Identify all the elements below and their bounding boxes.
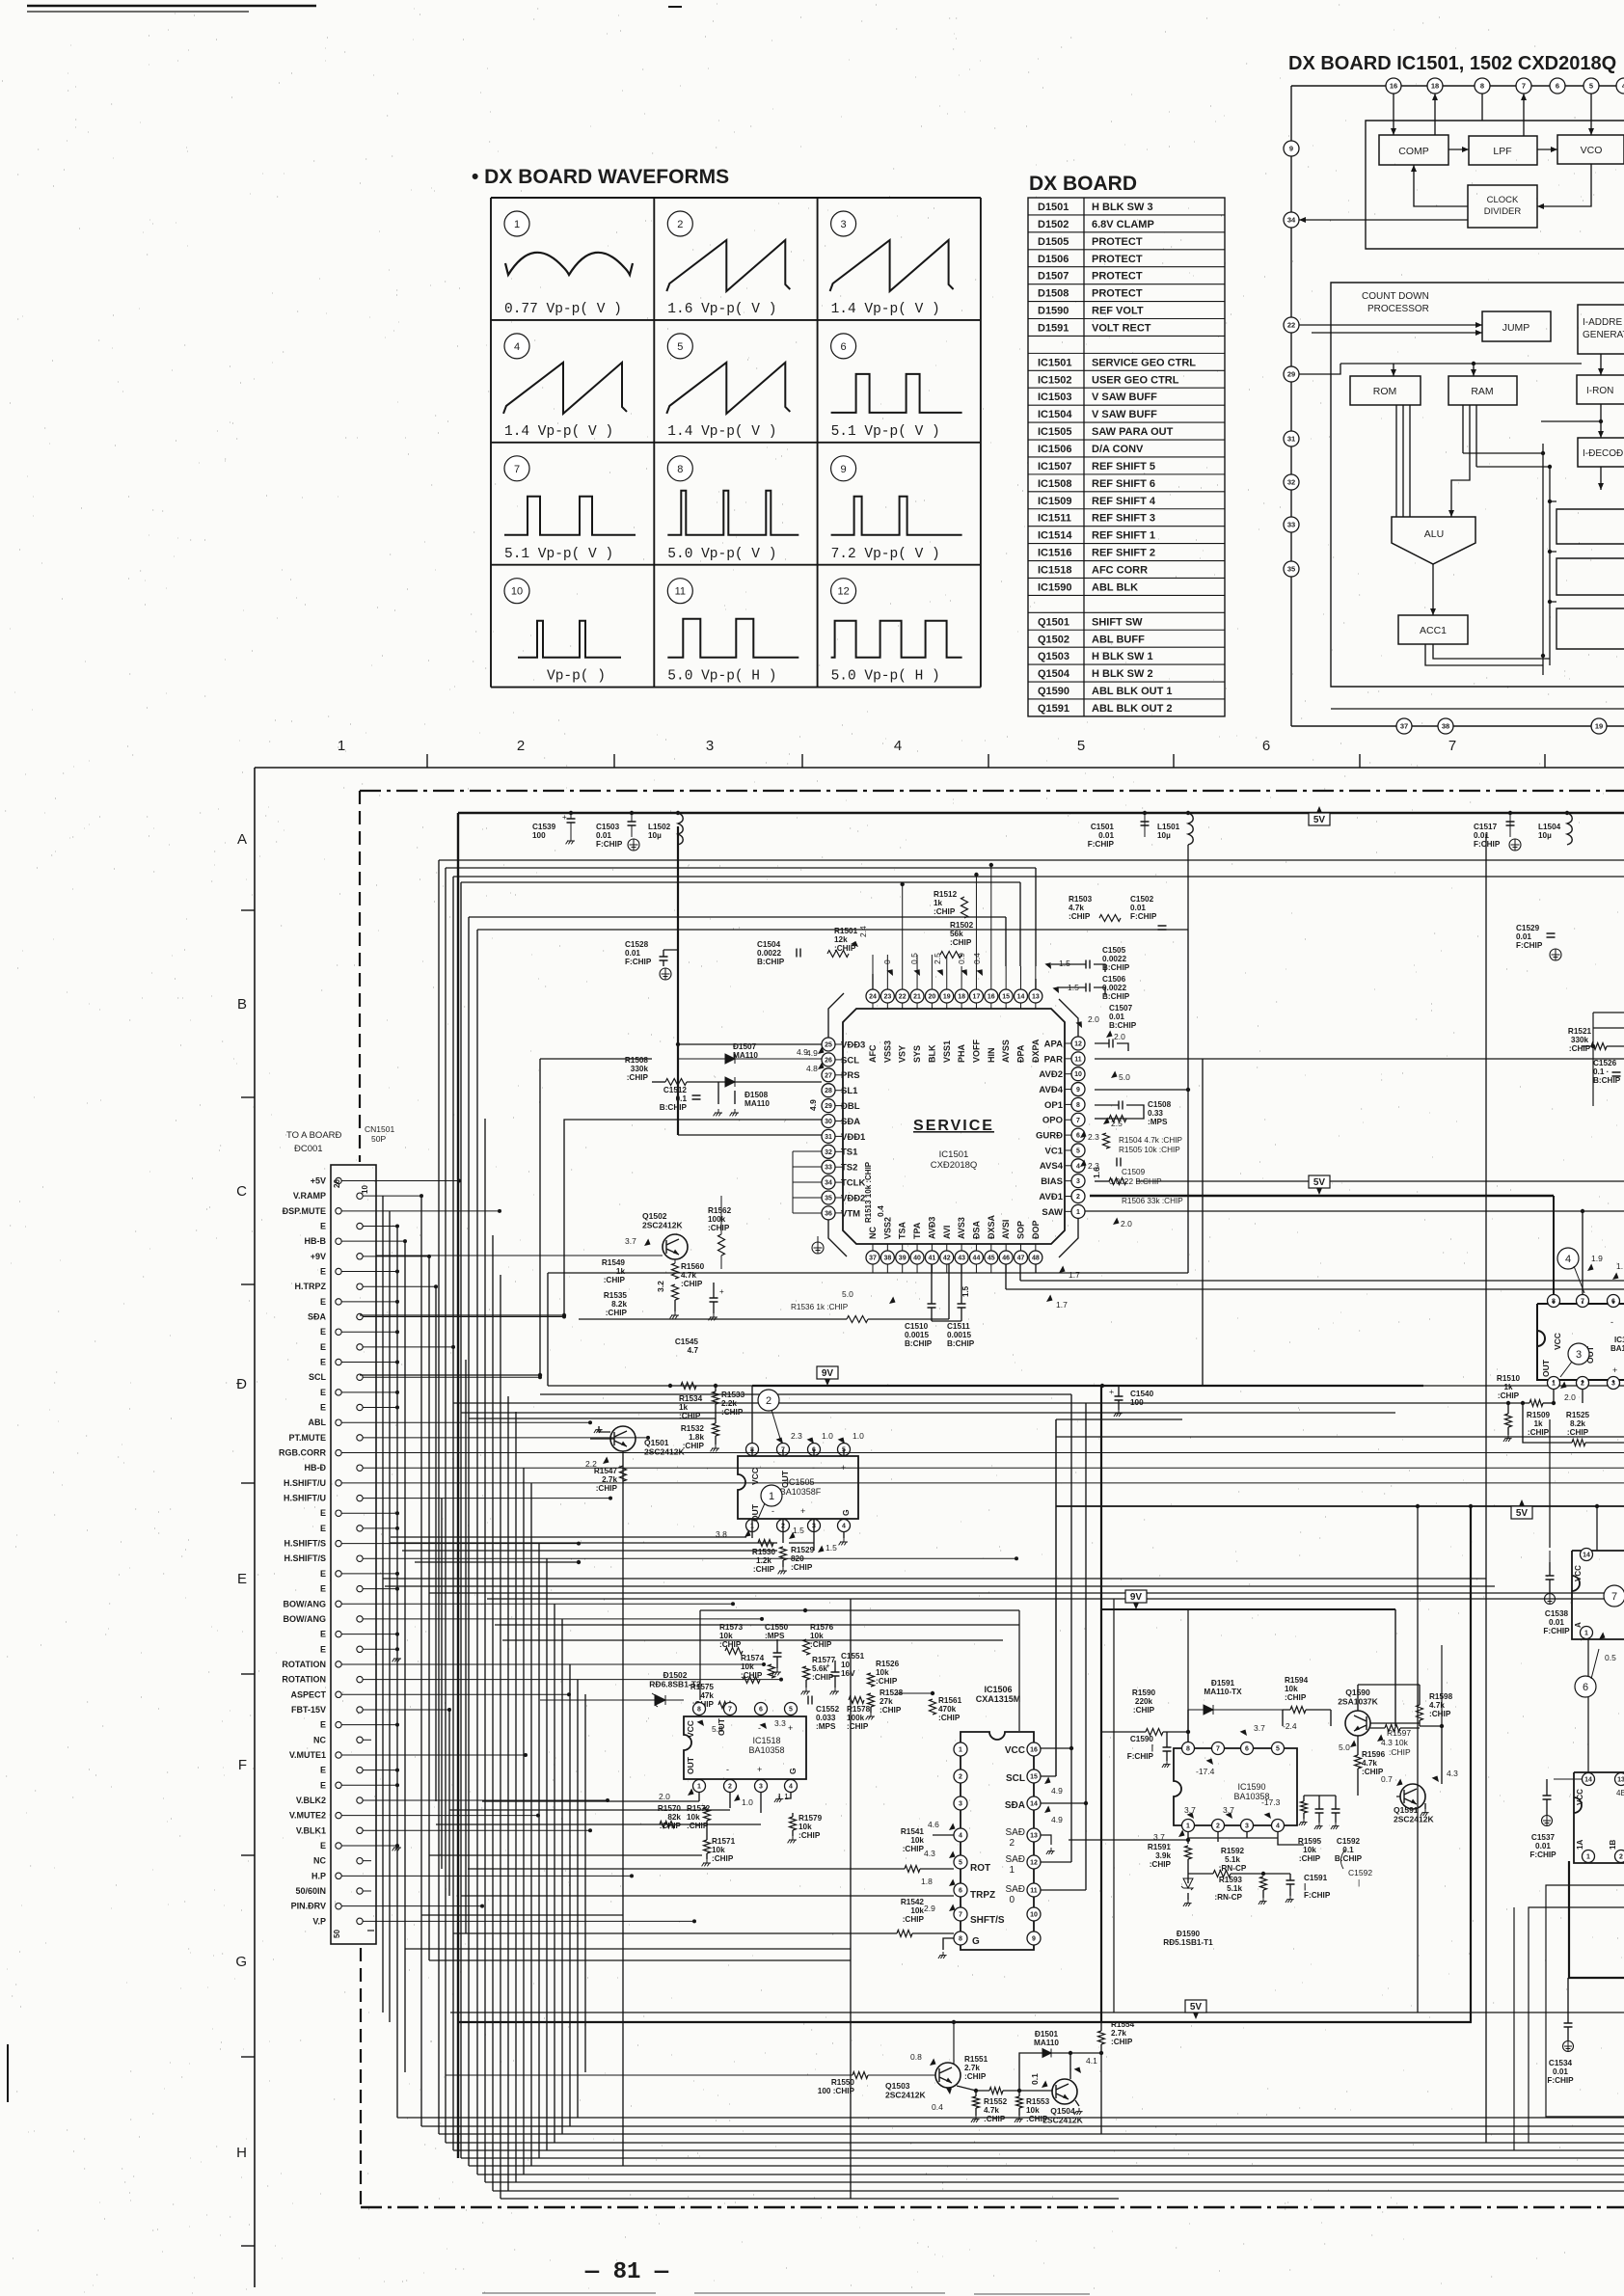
svg-text:10: 10 bbox=[1074, 1071, 1082, 1078]
svg-text:Q1503: Q1503 bbox=[1038, 651, 1069, 662]
connector body bbox=[331, 1165, 376, 1944]
svg-text:12: 12 bbox=[837, 586, 849, 598]
svg-text:ACC1: ACC1 bbox=[1420, 625, 1447, 636]
svg-text:R1504 4.7k :CHIP: R1504 4.7k :CHIP bbox=[1119, 1136, 1183, 1145]
svg-text::CHIP: :CHIP bbox=[1389, 1747, 1411, 1757]
svg-text:8: 8 bbox=[697, 1707, 701, 1714]
svg-text:6: 6 bbox=[959, 1888, 962, 1895]
svg-text:8: 8 bbox=[1480, 82, 1484, 91]
wire left vertical bundle bbox=[438, 860, 440, 2134]
svg-text:ABL BLK OUT 2: ABL BLK OUT 2 bbox=[1092, 703, 1173, 715]
svg-text:0: 0 bbox=[1009, 1895, 1015, 1905]
svg-text:4.8: 4.8 bbox=[806, 1064, 818, 1073]
svg-text:36: 36 bbox=[825, 1210, 832, 1217]
svg-text:Ð1508MA110: Ð1508MA110 bbox=[744, 1091, 770, 1108]
svg-text:3.7: 3.7 bbox=[1254, 1723, 1265, 1733]
block ALU bbox=[1392, 517, 1475, 564]
svg-text:3.2: 3.2 bbox=[656, 1281, 665, 1292]
supply 5V box A bbox=[1309, 806, 1330, 825]
svg-text:0.1: 0.1 bbox=[1030, 2073, 1040, 2085]
svg-text:1.5: 1.5 bbox=[793, 1526, 804, 1535]
svg-text:14: 14 bbox=[1584, 1777, 1592, 1784]
svg-text:3.3: 3.3 bbox=[774, 1718, 786, 1728]
svg-text:1B: 1B bbox=[1609, 1840, 1617, 1850]
svg-text:3: 3 bbox=[959, 1801, 962, 1808]
waveform 7 bbox=[504, 456, 529, 481]
svg-text:GURÐ: GURÐ bbox=[1036, 1131, 1063, 1142]
svg-text:E: E bbox=[320, 1569, 326, 1579]
svg-text:REF SHIFT 2: REF SHIFT 2 bbox=[1092, 548, 1155, 559]
wire SDA run bbox=[360, 1120, 822, 1315]
IC1501 bottom pins 37-48 bbox=[872, 1244, 874, 1251]
svg-text:4: 4 bbox=[514, 341, 520, 353]
svg-text:IC1506: IC1506 bbox=[1038, 444, 1071, 455]
svg-text:2: 2 bbox=[1619, 1854, 1623, 1861]
IC1501 left pins 25-36 bbox=[835, 1043, 843, 1045]
svg-text:1: 1 bbox=[1009, 1865, 1015, 1876]
svg-text:13: 13 bbox=[1030, 1833, 1038, 1840]
svg-text:13: 13 bbox=[1617, 1777, 1624, 1784]
svg-text:0.8: 0.8 bbox=[910, 2052, 922, 2062]
svg-text:7: 7 bbox=[1448, 738, 1456, 754]
svg-text:1.8: 1.8 bbox=[921, 1877, 933, 1886]
svg-text:7: 7 bbox=[1522, 82, 1526, 91]
svg-text:29: 29 bbox=[1287, 370, 1295, 379]
svg-text:41: 41 bbox=[929, 1256, 936, 1262]
svg-text:9V: 9V bbox=[1130, 1592, 1143, 1603]
svg-text:PRS: PRS bbox=[841, 1070, 860, 1081]
svg-text:5: 5 bbox=[1076, 1148, 1080, 1154]
svg-text:1.4 Vp-p( V ): 1.4 Vp-p( V ) bbox=[504, 424, 613, 440]
transistor Q1590 bbox=[1345, 1711, 1370, 1736]
svg-text:VTM: VTM bbox=[841, 1208, 860, 1219]
svg-text:9: 9 bbox=[1289, 145, 1293, 153]
svg-text:IC1505: IC1505 bbox=[786, 1477, 814, 1487]
svg-text:5: 5 bbox=[789, 1707, 793, 1714]
connector grounds bbox=[392, 1655, 401, 1661]
svg-text:LPF: LPF bbox=[1493, 146, 1511, 157]
svg-text:DX BOARD: DX BOARD bbox=[1029, 173, 1137, 195]
svg-text:25: 25 bbox=[825, 1042, 832, 1049]
svg-text:E: E bbox=[320, 1584, 326, 1594]
wire rows under IC1505 bbox=[383, 1578, 1486, 1580]
svg-text:V SAW BUFF: V SAW BUFF bbox=[1092, 392, 1157, 403]
transistor Q1502 bbox=[663, 1234, 688, 1259]
svg-text:2: 2 bbox=[1216, 1823, 1220, 1830]
svg-text:I-ÐECOÐ: I-ÐECOÐ bbox=[1583, 448, 1623, 459]
supply 5V box right bbox=[1511, 1499, 1532, 1519]
svg-text:35: 35 bbox=[825, 1196, 832, 1202]
svg-text:IC1590: IC1590 bbox=[1038, 581, 1071, 593]
svg-text:TRPZ: TRPZ bbox=[970, 1890, 995, 1901]
wire right side box group bbox=[1470, 1506, 1472, 2022]
svg-text:2: 2 bbox=[766, 1395, 771, 1407]
svg-text:31: 31 bbox=[1287, 435, 1295, 444]
svg-text:10: 10 bbox=[361, 1185, 369, 1194]
svg-text:VCC: VCC bbox=[1576, 1789, 1584, 1805]
svg-text:15: 15 bbox=[1002, 994, 1010, 1001]
svg-text:VC1: VC1 bbox=[1045, 1146, 1064, 1156]
svg-text:V.BLK1: V.BLK1 bbox=[296, 1825, 326, 1835]
svg-text:0.9: 0.9 bbox=[957, 953, 966, 964]
svg-text:4.9: 4.9 bbox=[1051, 1815, 1063, 1824]
svg-text:2: 2 bbox=[517, 738, 525, 754]
svg-text:4.3: 4.3 bbox=[924, 1849, 935, 1858]
svg-text:+9V: +9V bbox=[311, 1252, 326, 1261]
svg-text:11: 11 bbox=[1030, 1888, 1038, 1895]
svg-text:1.0: 1.0 bbox=[742, 1797, 753, 1807]
svg-text:2.3: 2.3 bbox=[1088, 1132, 1099, 1142]
svg-text:TCLK: TCLK bbox=[841, 1178, 865, 1189]
svg-text:4.3 10k: 4.3 10k bbox=[1381, 1738, 1409, 1747]
svg-text:SÐA: SÐA bbox=[1005, 1800, 1025, 1811]
transistor Q1501 bbox=[610, 1426, 636, 1451]
wire IC1505 output runs bbox=[391, 1536, 746, 1538]
wire nested top bus group bbox=[439, 859, 1624, 861]
svg-text:PT.MUTE: PT.MUTE bbox=[288, 1433, 326, 1443]
svg-text:13: 13 bbox=[1032, 994, 1040, 1001]
wire 5V right bus bbox=[1056, 1505, 1624, 1507]
svg-text:D/A CONV: D/A CONV bbox=[1092, 444, 1144, 455]
svg-text:7.2 Vp-p( V ): 7.2 Vp-p( V ) bbox=[831, 547, 940, 562]
svg-text:7: 7 bbox=[728, 1707, 732, 1714]
svg-text:REF SHIFT 3: REF SHIFT 3 bbox=[1092, 513, 1155, 525]
svg-text:Ð: Ð bbox=[236, 1376, 247, 1392]
svg-text:10: 10 bbox=[511, 586, 523, 598]
svg-text:FBT-15V: FBT-15V bbox=[291, 1705, 326, 1715]
svg-text:ROM: ROM bbox=[1373, 386, 1397, 397]
svg-text:4: 4 bbox=[1276, 1823, 1280, 1830]
svg-text:IC1502: IC1502 bbox=[1038, 374, 1071, 386]
waveform ref 4 bbox=[1557, 1248, 1579, 1269]
waveform 12 bbox=[831, 579, 856, 604]
svg-text:AFC: AFC bbox=[868, 1044, 878, 1063]
svg-text:SAÐ: SAÐ bbox=[1005, 1884, 1025, 1895]
IC1501 right pins 12-1 bbox=[1065, 1042, 1071, 1044]
svg-text:1.5: 1.5 bbox=[961, 1285, 970, 1297]
COUNT DOWN PROCESSOR box bbox=[1331, 283, 1624, 687]
svg-text:D1590: D1590 bbox=[1038, 306, 1069, 317]
svg-text:E: E bbox=[320, 1267, 326, 1277]
svg-text:VCC: VCC bbox=[1005, 1745, 1025, 1756]
svg-text:27: 27 bbox=[825, 1072, 832, 1079]
block LPF bbox=[1469, 136, 1537, 165]
svg-text:6.8V CLAMP: 6.8V CLAMP bbox=[1092, 219, 1154, 230]
waveform 9 bbox=[831, 456, 856, 481]
wire bottom bus group bbox=[450, 2012, 1624, 2013]
waveform ref 7 bbox=[1604, 1585, 1624, 1607]
svg-text:OP1: OP1 bbox=[1044, 1100, 1064, 1111]
svg-text:USER GEO CTRL: USER GEO CTRL bbox=[1092, 374, 1179, 386]
svg-text:-17.4: -17.4 bbox=[1196, 1767, 1215, 1776]
waveform ref 2 bbox=[758, 1390, 779, 1411]
waveform 3 bbox=[831, 211, 856, 236]
svg-text:G: G bbox=[972, 1936, 980, 1947]
svg-text:D1501: D1501 bbox=[1038, 202, 1069, 213]
svg-text:PROTECT: PROTECT bbox=[1092, 288, 1143, 300]
svg-text:OPO: OPO bbox=[1042, 1116, 1063, 1126]
wire long verticals center bbox=[622, 1451, 624, 2166]
svg-text:E: E bbox=[320, 1841, 326, 1850]
svg-text:39: 39 bbox=[899, 1256, 907, 1262]
svg-text:BIAS: BIAS bbox=[1041, 1176, 1063, 1187]
svg-text:3: 3 bbox=[1076, 1178, 1080, 1185]
svg-text:I-RON: I-RON bbox=[1586, 386, 1613, 396]
svg-text:TS1: TS1 bbox=[841, 1148, 858, 1158]
svg-text:H.SHIFT/U: H.SHIFT/U bbox=[284, 1494, 326, 1503]
svg-text:SHFT/S: SHFT/S bbox=[970, 1915, 1005, 1926]
svg-text:RGB.CORR: RGB.CORR bbox=[279, 1448, 326, 1458]
svg-text:A: A bbox=[1574, 1622, 1583, 1628]
wire IC1518 section box bbox=[700, 1609, 1019, 1611]
svg-text:5: 5 bbox=[1276, 1746, 1280, 1753]
svg-text:11: 11 bbox=[675, 586, 686, 598]
svg-text:1.7: 1.7 bbox=[1069, 1270, 1080, 1280]
svg-text:ÐOP: ÐOP bbox=[1031, 1220, 1041, 1239]
svg-text:RAM: RAM bbox=[1471, 386, 1493, 397]
wire IC1501 top pin stubs bbox=[872, 955, 874, 989]
op-amp IC1505 BA10358F bbox=[738, 1456, 858, 1519]
transistor Q1503 bbox=[935, 2063, 961, 2088]
svg-text:PROTECT: PROTECT bbox=[1092, 254, 1143, 265]
svg-text:ROTATION: ROTATION bbox=[282, 1675, 326, 1685]
svg-text:ÐC001: ÐC001 bbox=[294, 1144, 323, 1154]
svg-text:V.MUTE1: V.MUTE1 bbox=[289, 1750, 326, 1760]
svg-text:34: 34 bbox=[825, 1180, 832, 1187]
supply 5V box bottom bbox=[1185, 2000, 1206, 2019]
svg-text:JUMP: JUMP bbox=[1502, 322, 1530, 334]
block CLOCK DIVIDER bbox=[1468, 185, 1537, 228]
svg-text:R1506 33k :CHIP: R1506 33k :CHIP bbox=[1122, 1197, 1183, 1205]
svg-text:|: | bbox=[1358, 1877, 1360, 1887]
svg-text:I-ADDRE: I-ADDRE bbox=[1583, 317, 1622, 328]
svg-text:50: 50 bbox=[333, 1930, 341, 1938]
svg-text:2.5: 2.5 bbox=[933, 953, 942, 964]
svg-text:IC1501: IC1501 bbox=[939, 1149, 969, 1160]
svg-text:G: G bbox=[235, 1954, 247, 1970]
svg-text:24: 24 bbox=[869, 994, 877, 1001]
partial IC top right: pins bbox=[1572, 1551, 1624, 1639]
svg-text:VSS1: VSS1 bbox=[942, 1040, 952, 1063]
svg-text:V.MUTE2: V.MUTE2 bbox=[289, 1811, 326, 1821]
svg-text:+: + bbox=[757, 1765, 762, 1774]
svg-text:VÐÐ1: VÐÐ1 bbox=[841, 1132, 866, 1143]
svg-text:AVSS: AVSS bbox=[1001, 1040, 1011, 1063]
svg-text:20: 20 bbox=[929, 994, 936, 1001]
svg-text:PROTECT: PROTECT bbox=[1092, 271, 1143, 283]
waveform 2 bbox=[667, 211, 692, 236]
svg-text:IC1509: IC1509 bbox=[1038, 496, 1071, 507]
op-chip IC1501 CXD2018Q body bbox=[843, 1009, 1065, 1244]
svg-text:6: 6 bbox=[1262, 738, 1270, 754]
wire Q1590 collector emitter bbox=[1358, 1685, 1442, 1796]
svg-text:C1592: C1592 bbox=[1348, 1868, 1372, 1877]
svg-text:IC1508: IC1508 bbox=[1038, 478, 1071, 490]
svg-text:SCL: SCL bbox=[1006, 1773, 1025, 1784]
svg-text:OUT: OUT bbox=[686, 1756, 695, 1774]
svg-text:TSA: TSA bbox=[898, 1221, 907, 1239]
block I-ROM bbox=[1577, 375, 1624, 404]
svg-text:VSY: VSY bbox=[898, 1045, 907, 1063]
svg-text:5V: 5V bbox=[1313, 1177, 1326, 1188]
svg-text:+: + bbox=[800, 1506, 805, 1516]
svg-text:1.4 Vp-p( V ): 1.4 Vp-p( V ) bbox=[667, 424, 776, 440]
svg-text:4.9: 4.9 bbox=[808, 1099, 818, 1111]
svg-text:G: G bbox=[841, 1509, 851, 1516]
svg-text:32: 32 bbox=[825, 1149, 832, 1156]
svg-text:SCL: SCL bbox=[309, 1372, 327, 1382]
svg-text:REF SHIFT 4: REF SHIFT 4 bbox=[1092, 496, 1156, 507]
svg-text:5: 5 bbox=[677, 341, 683, 353]
svg-text:12: 12 bbox=[1030, 1860, 1038, 1867]
svg-text:REF VOLT: REF VOLT bbox=[1092, 306, 1144, 317]
svg-text:COMP: COMP bbox=[1398, 146, 1429, 157]
IC1501 top pins 24-13 bbox=[872, 1003, 874, 1009]
bottom scan artifact bbox=[482, 2293, 1090, 2294]
wire pins 32-36 stubs bbox=[793, 1150, 822, 1152]
svg-text:AVSI: AVSI bbox=[1001, 1220, 1011, 1239]
svg-text:IC1505: IC1505 bbox=[1038, 426, 1071, 438]
svg-text:5.0: 5.0 bbox=[1119, 1072, 1130, 1082]
svg-text:5.1 Vp-p( V ): 5.1 Vp-p( V ) bbox=[831, 424, 940, 440]
svg-text:30: 30 bbox=[825, 1119, 832, 1125]
svg-text:8: 8 bbox=[677, 464, 683, 475]
svg-text:APA: APA bbox=[1044, 1039, 1063, 1049]
svg-text:8: 8 bbox=[1186, 1746, 1190, 1753]
svg-text:1.0: 1.0 bbox=[853, 1431, 864, 1441]
svg-text:23: 23 bbox=[883, 994, 891, 1001]
svg-text:43: 43 bbox=[958, 1256, 965, 1262]
wire +5V vertical thick bbox=[457, 813, 459, 2158]
svg-text:VÐÐ2: VÐÐ2 bbox=[841, 1193, 865, 1203]
wire IC1590 bottom bbox=[1069, 1832, 1304, 1845]
svg-text:AVÐ4: AVÐ4 bbox=[1039, 1085, 1063, 1095]
svg-text:18: 18 bbox=[1431, 82, 1439, 91]
svg-text:Q1591: Q1591 bbox=[1038, 703, 1069, 715]
wire IC1501 bottom pin stubs bbox=[872, 1264, 874, 1273]
svg-text:28: 28 bbox=[825, 1088, 832, 1094]
svg-text:6: 6 bbox=[1583, 1682, 1588, 1693]
block diagram bottom pin row bbox=[1291, 725, 1624, 727]
svg-text:PROCESSOR: PROCESSOR bbox=[1367, 304, 1429, 314]
svg-text:3.7: 3.7 bbox=[625, 1236, 636, 1246]
svg-text:H.TRPZ: H.TRPZ bbox=[295, 1282, 327, 1291]
svg-text:33: 33 bbox=[1287, 521, 1295, 529]
svg-text:1: 1 bbox=[1584, 1631, 1588, 1637]
svg-text:ABL BLK OUT 1: ABL BLK OUT 1 bbox=[1092, 686, 1173, 697]
svg-text:E: E bbox=[320, 1403, 326, 1413]
waveform 5 bbox=[667, 334, 692, 359]
svg-text:ÐPA: ÐPA bbox=[1016, 1044, 1026, 1063]
svg-text:E: E bbox=[320, 1644, 326, 1654]
svg-text:4: 4 bbox=[789, 1784, 793, 1791]
svg-text:1: 1 bbox=[769, 1491, 774, 1502]
svg-text:Q1502: Q1502 bbox=[1038, 634, 1069, 645]
svg-text:Q1504: Q1504 bbox=[1038, 668, 1070, 680]
svg-text:5.8: 5.8 bbox=[712, 1724, 723, 1734]
svg-text:E: E bbox=[320, 1358, 326, 1367]
svg-text:SAÐ: SAÐ bbox=[1005, 1854, 1025, 1865]
svg-text:H.P: H.P bbox=[311, 1871, 326, 1880]
PLL outer box bbox=[1366, 121, 1624, 249]
svg-text:GENERAT: GENERAT bbox=[1583, 330, 1624, 340]
svg-text:H BLK SW 3: H BLK SW 3 bbox=[1092, 202, 1153, 213]
svg-text:ÐXPA: ÐXPA bbox=[1031, 1039, 1041, 1063]
svg-text:A: A bbox=[237, 831, 247, 848]
svg-text:2: 2 bbox=[1009, 1838, 1015, 1849]
svg-text:COUNT DOWN: COUNT DOWN bbox=[1362, 291, 1429, 302]
svg-text:4.1: 4.1 bbox=[1086, 2056, 1097, 2066]
svg-text:D1502: D1502 bbox=[1038, 219, 1069, 230]
wire H.P run bbox=[429, 1959, 851, 1961]
svg-text:6: 6 bbox=[841, 341, 847, 353]
svg-text:ÐXSA: ÐXSA bbox=[987, 1214, 996, 1239]
wire mid horizontal bus group bbox=[548, 1385, 752, 1387]
svg-text:REF SHIFT 5: REF SHIFT 5 bbox=[1092, 461, 1155, 473]
svg-text:2.4: 2.4 bbox=[858, 926, 868, 937]
svg-text:5.0: 5.0 bbox=[1339, 1742, 1350, 1752]
svg-text:VCO: VCO bbox=[1581, 145, 1603, 156]
svg-text:PROTECT: PROTECT bbox=[1092, 236, 1143, 248]
svg-text:IC1518: IC1518 bbox=[752, 1736, 780, 1745]
svg-text:BOW/ANG: BOW/ANG bbox=[284, 1614, 327, 1624]
op-amp IC1518 BA10358 bbox=[684, 1716, 806, 1779]
svg-text:37: 37 bbox=[869, 1256, 877, 1262]
svg-text:3: 3 bbox=[1576, 1349, 1582, 1361]
svg-text:Ð1501MA110: Ð1501MA110 bbox=[1034, 2030, 1059, 2047]
block I-DECODER bbox=[1578, 438, 1624, 467]
block diagram pin row top bbox=[1291, 85, 1624, 87]
svg-text:HIN: HIN bbox=[987, 1048, 996, 1064]
svg-text:V.RAMP: V.RAMP bbox=[293, 1191, 326, 1201]
svg-text:7: 7 bbox=[1076, 1118, 1080, 1124]
svg-text:37: 37 bbox=[1400, 722, 1408, 731]
svg-text:1.: 1. bbox=[1616, 1261, 1623, 1271]
svg-text:33: 33 bbox=[825, 1165, 832, 1172]
ruler left bbox=[254, 768, 256, 2287]
svg-text:19: 19 bbox=[1595, 722, 1603, 731]
svg-text:14: 14 bbox=[1017, 994, 1025, 1001]
waveform 10 bbox=[504, 579, 529, 604]
svg-text:V.BLK2: V.BLK2 bbox=[296, 1796, 326, 1805]
svg-text:IC1590: IC1590 bbox=[1237, 1782, 1265, 1792]
svg-text:35: 35 bbox=[1287, 565, 1295, 574]
svg-text:SCL: SCL bbox=[841, 1055, 859, 1066]
wire long right-going runs from IC1501 bbox=[1095, 1058, 1624, 1060]
wire IC1505 pins bbox=[752, 1449, 844, 1456]
block RAM bbox=[1448, 376, 1517, 405]
svg-text:ÐBL: ÐBL bbox=[841, 1101, 860, 1112]
svg-text:34: 34 bbox=[1287, 216, 1296, 225]
svg-text:7: 7 bbox=[959, 1912, 962, 1919]
svg-text:DX BOARD IC1501, 1502 CXD201: DX BOARD IC1501, 1502 CXD2018Q bbox=[1288, 53, 1616, 74]
svg-text:+: + bbox=[719, 1287, 724, 1296]
svg-text:G: G bbox=[788, 1768, 798, 1774]
svg-text:PHA: PHA bbox=[957, 1043, 966, 1063]
svg-text:8: 8 bbox=[959, 1936, 962, 1943]
svg-text:SERVICE: SERVICE bbox=[913, 1118, 994, 1134]
svg-text:4B: 4B bbox=[1616, 1789, 1624, 1797]
svg-text:ABL BLK: ABL BLK bbox=[1092, 581, 1138, 593]
svg-text:ALU: ALU bbox=[1424, 528, 1444, 540]
svg-text:SÐA: SÐA bbox=[308, 1312, 327, 1322]
svg-text:IC1514: IC1514 bbox=[1038, 530, 1072, 542]
svg-text:IC15: IC15 bbox=[1614, 1336, 1624, 1344]
svg-text:REF SHIFT 6: REF SHIFT 6 bbox=[1092, 478, 1155, 490]
svg-text:— 81 —: — 81 — bbox=[584, 2259, 669, 2285]
svg-text:4: 4 bbox=[842, 1524, 846, 1530]
svg-text:1.5: 1.5 bbox=[1059, 959, 1070, 968]
